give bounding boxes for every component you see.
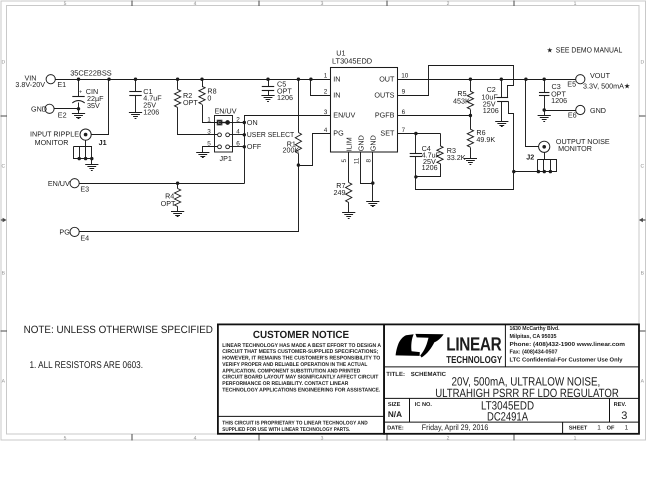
svg-text:OFF: OFF xyxy=(247,142,262,151)
svg-text:USER SELECT: USER SELECT xyxy=(247,130,295,139)
svg-text:4: 4 xyxy=(324,127,328,134)
wire R5 top xyxy=(470,80,472,92)
svg-text:GND: GND xyxy=(590,106,606,115)
resistor R4 xyxy=(175,189,181,207)
label J2 xyxy=(526,153,534,162)
capacitor C1 xyxy=(129,92,141,96)
svg-text:0: 0 xyxy=(207,93,211,102)
svg-text:1: 1 xyxy=(574,1,577,7)
ground C2 xyxy=(495,122,508,127)
label SIZE xyxy=(388,402,401,408)
node OUT-R5 junction xyxy=(469,78,472,81)
wire J1 shield to ground xyxy=(91,159,93,165)
svg-text:CUSTOMER NOTICE: CUSTOMER NOTICE xyxy=(253,330,349,341)
svg-text:TECHNOLOGY: TECHNOLOGY xyxy=(446,355,502,366)
wire CIN top xyxy=(78,80,80,97)
wire ILIM stub xyxy=(348,153,350,183)
label U1 pin 6 xyxy=(402,109,406,116)
label OF xyxy=(607,426,615,432)
svg-text:Milpitas, CA 95035: Milpitas, CA 95035 xyxy=(510,333,558,340)
wire E2 to CIN xyxy=(55,108,79,110)
label R1 value xyxy=(283,139,300,154)
svg-text:LT3045EDD: LT3045EDD xyxy=(332,56,372,65)
svg-text:3: 3 xyxy=(621,410,627,422)
svg-text:EN/UV: EN/UV xyxy=(48,179,70,188)
label ON xyxy=(247,118,258,127)
wire R1 top xyxy=(298,80,300,133)
svg-text:E2: E2 xyxy=(58,111,67,120)
wire C4 bottom xyxy=(415,157,417,177)
svg-text:GND: GND xyxy=(31,104,47,113)
svg-text:Fax: (408)434-0507: Fax: (408)434-0507 xyxy=(510,349,558,356)
jumper JP1 pins xyxy=(218,121,230,149)
svg-text:OF: OF xyxy=(607,426,615,432)
svg-text:1206: 1206 xyxy=(277,93,293,102)
title block grid xyxy=(384,324,639,433)
svg-text:1206: 1206 xyxy=(143,107,159,116)
svg-text:HOWEVER, IT REMAINS THE CUSTOM: HOWEVER, IT REMAINS THE CUSTOMER'S RESPO… xyxy=(222,356,380,362)
label U1 pin 8 xyxy=(365,159,372,163)
resistor R8 xyxy=(199,86,205,104)
connector E4 PG xyxy=(59,227,89,242)
label R7 value xyxy=(334,181,346,197)
label JP1 pin numbers xyxy=(207,116,240,147)
label R3 value xyxy=(447,146,466,162)
svg-text:PERFORMANCE OR RELIABILITY. C: PERFORMANCE OR RELIABILITY. CONTACT LINE… xyxy=(222,381,348,387)
label of 1 xyxy=(625,425,629,432)
wire PGFB line xyxy=(398,115,471,117)
wire C4 top xyxy=(415,134,417,154)
svg-text:PG: PG xyxy=(333,129,344,138)
svg-text:OUTS: OUTS xyxy=(374,91,394,100)
node J2 shield junctions xyxy=(537,170,552,173)
wire C5 bottom xyxy=(268,91,270,96)
connector J2 SMA xyxy=(539,141,550,152)
customer notice box xyxy=(218,324,384,433)
wire C2 to ground bus xyxy=(509,102,514,172)
label U1 pin names bottom xyxy=(344,135,377,151)
logo TECHNOLOGY xyxy=(446,355,502,366)
note heading xyxy=(24,324,214,336)
svg-text:1: 1 xyxy=(597,425,601,432)
svg-text:4: 4 xyxy=(194,436,197,442)
svg-text:ILIM: ILIM xyxy=(344,137,353,151)
svg-text:C: C xyxy=(1,164,5,170)
wire R4 bottom xyxy=(177,207,179,212)
svg-text:SUPPLIED FOR USE WITH LINEAR T: SUPPLIED FOR USE WITH LINEAR TECHNOLOGY … xyxy=(222,427,350,433)
svg-text:IN: IN xyxy=(333,74,340,83)
label INPUT RIPPLE MONITOR xyxy=(30,130,79,148)
ground C1 xyxy=(129,113,142,119)
svg-text:11: 11 xyxy=(353,157,360,164)
label C5 value xyxy=(277,80,293,103)
svg-text:3: 3 xyxy=(321,436,324,442)
note 1 xyxy=(30,360,144,371)
resistor R1 xyxy=(295,133,301,154)
node C3-GND junction xyxy=(543,108,546,111)
wire J2 shield stem xyxy=(544,153,546,160)
label R6 value xyxy=(476,128,495,144)
svg-text:1206: 1206 xyxy=(483,106,499,115)
label C4 value xyxy=(422,144,441,172)
svg-text:E3: E3 xyxy=(80,185,89,194)
node OUT-J2 junction xyxy=(524,78,527,81)
svg-text:C: C xyxy=(640,164,644,170)
label C2 value xyxy=(481,85,498,115)
wire PG to E4 xyxy=(80,166,299,232)
ground R4 xyxy=(171,212,184,217)
ground U1 GND xyxy=(366,202,379,207)
svg-text:1206: 1206 xyxy=(422,163,438,172)
node U1 GND junction xyxy=(371,181,374,184)
label N/A xyxy=(388,410,402,419)
node J1 shield junctions xyxy=(78,157,94,160)
node VIN-CIN junction xyxy=(77,78,80,81)
svg-text:VERIFY PROPER AND RELIABLE OPE: VERIFY PROPER AND RELIABLE OPERATION IN … xyxy=(222,362,368,368)
svg-text:E6: E6 xyxy=(568,111,577,120)
label IC NO xyxy=(415,402,433,408)
label U1 pin names left xyxy=(333,74,355,137)
svg-text:1630 McCarthy Blvd.: 1630 McCarthy Blvd. xyxy=(510,325,560,332)
wire R3 top xyxy=(440,134,442,146)
wire C1 bottom xyxy=(135,96,137,113)
svg-text:VOUT: VOUT xyxy=(590,71,611,80)
title block address xyxy=(510,325,626,363)
logo LINEAR xyxy=(446,334,502,355)
ground CIN xyxy=(72,114,85,119)
svg-text:OPT: OPT xyxy=(161,199,176,208)
node OUT-C3 junction xyxy=(543,78,546,81)
svg-text:35CE22BSS: 35CE22BSS xyxy=(70,69,112,78)
svg-text:SHEET: SHEET xyxy=(569,426,588,432)
label EN/UV jumper title xyxy=(215,106,237,115)
resistor R6 xyxy=(467,129,473,147)
svg-text:+: + xyxy=(79,90,82,96)
wire GND pin8 xyxy=(372,153,374,184)
svg-text:E4: E4 xyxy=(80,233,89,242)
wire R4 top xyxy=(177,184,179,189)
wire R5 bottom xyxy=(470,110,472,116)
svg-text:49.9K: 49.9K xyxy=(476,135,495,144)
label date value xyxy=(422,423,489,432)
svg-text:LINEAR TECHNOLOGY HAS MADE A B: LINEAR TECHNOLOGY HAS MADE A BEST EFFORT… xyxy=(222,343,381,349)
J2 shield pins xyxy=(538,160,557,172)
svg-text:5: 5 xyxy=(64,1,67,7)
node CIN-GND junction xyxy=(77,107,80,110)
svg-text:SEE DEMO MANUAL: SEE DEMO MANUAL xyxy=(556,45,623,54)
wire GND pin11 xyxy=(361,153,373,184)
wire C2 bottom xyxy=(501,102,503,122)
label LT3045EDD xyxy=(332,56,372,65)
wire J1 shield stem xyxy=(85,141,87,147)
svg-text:DC2491A: DC2491A xyxy=(487,410,528,424)
svg-text:OPT: OPT xyxy=(183,98,198,107)
connector E3 EN/UV xyxy=(48,179,89,194)
wire GND to E6 xyxy=(545,110,576,112)
svg-text:LTC Confidential-For Customer: LTC Confidential-For Customer Use Only xyxy=(510,356,624,363)
svg-text:4: 4 xyxy=(194,1,197,7)
node VIN-C5 junction xyxy=(266,78,269,81)
label U1 pin 2 xyxy=(324,89,328,96)
svg-text:2: 2 xyxy=(447,436,450,442)
svg-text:SET: SET xyxy=(380,129,395,138)
label REV xyxy=(614,402,627,408)
svg-text:D: D xyxy=(640,60,644,66)
wire U1 pin2 riser xyxy=(311,80,331,96)
label rev 3 xyxy=(621,410,627,422)
ground J1 xyxy=(85,165,98,171)
svg-text:OUT: OUT xyxy=(379,74,395,83)
svg-text:N/A: N/A xyxy=(388,410,402,419)
svg-text:1: 1 xyxy=(324,73,328,80)
svg-text:35V: 35V xyxy=(87,101,100,110)
node R1-PG junction xyxy=(297,163,300,166)
svg-text:Friday, April 29, 2016: Friday, April 29, 2016 xyxy=(422,423,489,432)
svg-text:3: 3 xyxy=(321,1,324,7)
wire VIN rail xyxy=(56,79,331,81)
svg-text:THIS CIRCUIT IS PROPRIETARY TO: THIS CIRCUIT IS PROPRIETARY TO LINEAR TE… xyxy=(222,421,367,427)
label R8 value xyxy=(207,86,216,102)
wire JP1 pin4 stub xyxy=(230,134,245,136)
label LT3045EDD title xyxy=(481,399,534,413)
wire J2 shield to ground bus xyxy=(514,171,538,173)
customer notice heading xyxy=(253,330,349,341)
jumper JP1 pin1 marker xyxy=(217,120,222,125)
frame center arrow right xyxy=(639,218,646,222)
svg-text:LINEAR: LINEAR xyxy=(446,334,502,355)
capacitor C3 xyxy=(539,93,550,96)
wire C2 top xyxy=(501,80,503,98)
wire R6 top xyxy=(470,116,472,130)
label SHEET xyxy=(569,426,588,432)
node VIN-J1 junction xyxy=(107,78,110,81)
svg-text:TITLE:: TITLE: xyxy=(386,371,405,378)
node VIN-R2 junction xyxy=(176,78,179,81)
svg-text:2: 2 xyxy=(324,89,328,96)
svg-text:GND: GND xyxy=(356,135,365,151)
svg-text:1. ALL RESISTORS ARE 0603.: 1. ALL RESISTORS ARE 0603. xyxy=(30,360,144,371)
label C3 value xyxy=(551,82,567,105)
svg-text:1: 1 xyxy=(574,436,577,442)
svg-text:NOTE: UNLESS OTHERWISE SPECIFI: NOTE: UNLESS OTHERWISE SPECIFIED xyxy=(24,324,214,336)
op-amp U1 body xyxy=(331,68,398,153)
logo LT glyph xyxy=(396,334,444,358)
svg-text:3.3V, 500mA★: 3.3V, 500mA★ xyxy=(583,82,630,91)
node C4-R3 bottom junction xyxy=(414,175,417,178)
label U1 pin 1 xyxy=(324,73,328,80)
resistor R2 xyxy=(175,89,181,107)
wire R8 top xyxy=(202,80,204,87)
svg-text:SIZE: SIZE xyxy=(388,402,401,408)
jumper JP1 shunt 1-2 xyxy=(218,120,229,124)
customer notice footer xyxy=(222,421,367,434)
label R5 value xyxy=(453,89,470,105)
svg-text:9: 9 xyxy=(402,89,406,96)
node VIN-R1 junction xyxy=(297,78,300,81)
svg-text:5: 5 xyxy=(64,436,67,442)
frame center arrow left xyxy=(1,218,7,222)
svg-text:CIRCUIT THAT MEETS CUSTOMER-SU: CIRCUIT THAT MEETS CUSTOMER-SUPPLIED SPE… xyxy=(222,349,378,355)
label 35CE22BSS xyxy=(70,69,112,78)
node JP1 pin4 junction xyxy=(243,133,246,136)
connector J1 SMA xyxy=(80,129,91,140)
svg-text:1: 1 xyxy=(625,425,629,432)
J1 shield pins xyxy=(74,147,92,159)
label U1 pin 7 xyxy=(402,127,406,134)
svg-text:7: 7 xyxy=(402,127,406,134)
wire C3 top xyxy=(544,80,546,93)
wire OUT line xyxy=(398,79,576,81)
ground C5 xyxy=(261,96,274,102)
svg-text:1: 1 xyxy=(207,116,211,123)
svg-text:ON: ON xyxy=(247,118,258,127)
svg-text:PGFB: PGFB xyxy=(375,111,395,120)
resistor R3 xyxy=(437,146,443,164)
svg-text:E1: E1 xyxy=(57,80,66,89)
wire J1 riser xyxy=(92,80,109,135)
svg-text:JP1: JP1 xyxy=(220,154,232,163)
wire R1 bottom xyxy=(298,154,300,166)
ground R6 xyxy=(464,159,477,165)
label R2 value xyxy=(183,91,198,107)
svg-text:GND: GND xyxy=(368,135,377,151)
wire R3 bottom xyxy=(416,164,441,177)
wire R6 bottom xyxy=(470,148,472,159)
node PGFB junction xyxy=(469,114,472,117)
wire JP1 pin6 stub xyxy=(230,146,245,148)
wire J2 riser xyxy=(526,80,539,147)
svg-text:Phone: (408)432-1900 www.line: Phone: (408)432-1900 www.linear.com xyxy=(510,341,626,348)
svg-text:EN/UV: EN/UV xyxy=(333,111,355,120)
label USER SELECT xyxy=(247,130,295,139)
label U1 pin names right xyxy=(374,74,395,137)
connector E6 GND xyxy=(568,105,606,119)
title line 1 xyxy=(452,374,601,388)
label U1 xyxy=(336,49,345,58)
capacitor CIN xyxy=(72,90,84,103)
connector E5 VOUT xyxy=(567,71,630,91)
svg-text:3: 3 xyxy=(324,109,328,116)
svg-text:MONITOR: MONITOR xyxy=(35,138,69,147)
label JP1 xyxy=(220,154,232,163)
svg-text:REV.: REV. xyxy=(614,402,627,408)
wire SET line xyxy=(398,133,441,135)
resistor R5 xyxy=(467,91,473,109)
svg-text:J2: J2 xyxy=(526,153,534,162)
wire R2 bottom xyxy=(178,108,218,135)
svg-text:3.8V-20V: 3.8V-20V xyxy=(15,80,45,89)
wire JP1 pin5 to ground xyxy=(203,147,218,153)
label J1 xyxy=(99,138,107,147)
wire JP1 pin2 stub xyxy=(230,122,245,124)
ground C3 xyxy=(538,116,551,122)
wire C1 top xyxy=(135,80,137,92)
jumper JP1 body xyxy=(215,116,233,153)
svg-text:2: 2 xyxy=(447,1,450,7)
wire PG to U1 pin4 xyxy=(299,134,331,166)
label U1 pin 5 xyxy=(341,159,348,163)
label TITLE SCHEMATIC xyxy=(386,371,446,378)
node OUT-C2 junction xyxy=(500,78,503,81)
svg-text:D: D xyxy=(1,60,5,66)
svg-text:CIRCUIT BOARD LAYOUT MAY SIGNI: CIRCUIT BOARD LAYOUT MAY SIGNIFICANTLY A… xyxy=(222,375,379,381)
capacitor C5 xyxy=(262,87,274,91)
label CIN value xyxy=(86,87,104,110)
svg-text:SCHEMATIC: SCHEMATIC xyxy=(411,371,447,378)
wire CIN bottom xyxy=(78,103,80,114)
svg-text:3: 3 xyxy=(207,129,211,136)
title line 2 xyxy=(435,386,619,400)
node JP1 pin6 junction xyxy=(243,145,246,148)
wire R8 bottom xyxy=(203,105,218,123)
node SET-C4 junction xyxy=(414,132,417,135)
resistor R7 xyxy=(346,183,352,203)
svg-text:EN/UV: EN/UV xyxy=(215,106,237,115)
svg-text:MONITOR: MONITOR xyxy=(558,144,592,153)
node VIN-C1 junction xyxy=(134,78,137,81)
svg-text:★: ★ xyxy=(547,46,553,54)
wire U1 GND drop xyxy=(372,184,374,202)
connector E2 GND xyxy=(31,104,67,119)
label R4 value xyxy=(161,192,176,208)
ground R7 xyxy=(342,213,355,219)
label DC2491A xyxy=(487,410,528,424)
svg-text:TECHNOLOGY APPLICATIONS ENGINE: TECHNOLOGY APPLICATIONS ENGINEERING FOR … xyxy=(222,387,380,393)
svg-text:6: 6 xyxy=(402,109,406,116)
label sheet 1 xyxy=(597,425,601,432)
label U1 pin 9 xyxy=(402,89,406,96)
svg-text:PG: PG xyxy=(59,228,70,237)
wire R2 top xyxy=(177,80,179,90)
svg-text:IN: IN xyxy=(333,91,340,100)
label OUTPUT NOISE MONITOR xyxy=(556,137,610,153)
wire R7 bottom xyxy=(348,203,350,213)
wire EN/UV bus xyxy=(245,116,331,184)
wire E3 to JP1 xyxy=(80,183,245,185)
wire C3 bottom xyxy=(544,96,546,116)
node ground bus junction xyxy=(512,170,515,173)
svg-text:IC NO.: IC NO. xyxy=(415,402,433,408)
svg-text:1206: 1206 xyxy=(551,96,567,105)
ground JP1 xyxy=(196,153,209,158)
node JP1 pin2 junction xyxy=(243,121,246,124)
wire OUTS sense route xyxy=(398,66,514,98)
capacitor C4 xyxy=(410,154,422,157)
wire ground bus xyxy=(416,172,514,190)
svg-text:33.2K: 33.2K xyxy=(447,153,466,162)
label U1 pin 4 xyxy=(324,127,328,134)
svg-text:249: 249 xyxy=(334,188,346,197)
svg-text:453K: 453K xyxy=(453,96,470,105)
svg-text:200K: 200K xyxy=(283,146,300,155)
svg-text:DATE:: DATE: xyxy=(387,425,404,431)
customer notice body xyxy=(222,343,381,394)
svg-text:10: 10 xyxy=(401,73,409,80)
svg-text:J1: J1 xyxy=(99,138,107,147)
wire C5 top xyxy=(268,80,270,87)
svg-text:E5: E5 xyxy=(567,80,576,89)
label C1 value xyxy=(143,87,162,116)
svg-text:5: 5 xyxy=(341,159,348,163)
node VIN-R8 junction xyxy=(200,78,203,81)
node EN/UV-R4 junction xyxy=(176,182,179,185)
label OFF xyxy=(247,142,262,151)
capacitor C2 xyxy=(497,98,509,102)
label U1 pin 11 xyxy=(353,157,360,164)
svg-text:APPLICATION. COMPONENT SUBSTI: APPLICATION. COMPONENT SUBSTITUTION AND … xyxy=(222,368,360,374)
connector E1 VIN xyxy=(15,73,66,89)
note SEE DEMO MANUAL xyxy=(547,45,623,54)
